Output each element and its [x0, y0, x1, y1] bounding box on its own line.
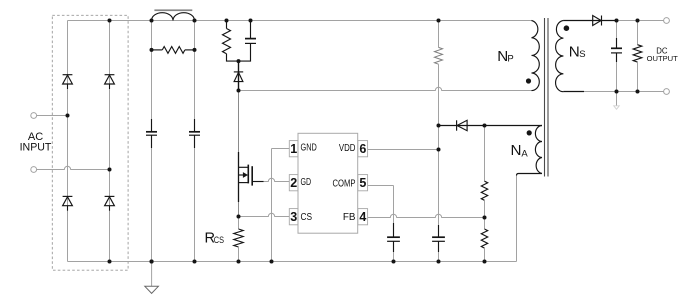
svg-text:FB: FB: [343, 212, 356, 223]
svg-text:A: A: [521, 148, 528, 159]
svg-text:GD: GD: [301, 177, 312, 188]
svg-text:N: N: [511, 142, 522, 159]
svg-text:4: 4: [359, 210, 366, 224]
svg-text:VDD: VDD: [339, 143, 356, 154]
svg-text:2: 2: [290, 176, 297, 190]
svg-text:INPUT: INPUT: [20, 142, 52, 154]
svg-text:GND: GND: [301, 143, 317, 154]
svg-text:N: N: [569, 43, 580, 60]
svg-text:OUTPUT: OUTPUT: [647, 54, 679, 63]
svg-text:6: 6: [359, 142, 366, 156]
svg-text:CS: CS: [301, 212, 313, 223]
svg-text:COMP: COMP: [333, 179, 356, 190]
svg-text:3: 3: [290, 210, 297, 224]
svg-text:1: 1: [290, 142, 297, 156]
svg-text:5: 5: [359, 176, 366, 190]
svg-text:CS: CS: [214, 235, 224, 245]
svg-text:P: P: [507, 54, 513, 65]
svg-text:S: S: [579, 49, 585, 60]
